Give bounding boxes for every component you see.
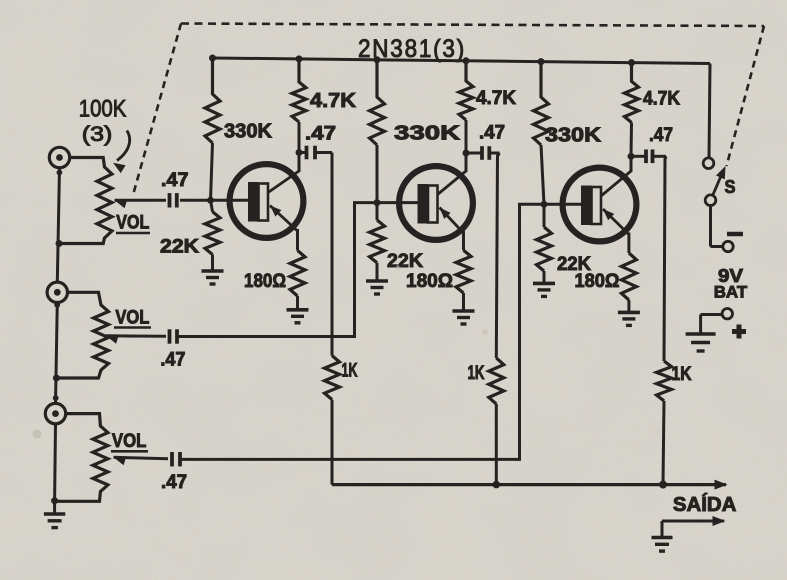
svg-text:100K: 100K bbox=[79, 96, 127, 123]
svg-text:SAÍDA: SAÍDA bbox=[673, 493, 737, 516]
svg-text:.47: .47 bbox=[161, 472, 187, 493]
svg-text:22K: 22K bbox=[387, 251, 423, 272]
svg-text:22K: 22K bbox=[160, 237, 199, 258]
svg-text:.47: .47 bbox=[305, 124, 336, 145]
svg-text:330K: 330K bbox=[394, 123, 461, 145]
svg-text:.47: .47 bbox=[479, 123, 505, 144]
svg-text:BAT: BAT bbox=[714, 283, 748, 302]
svg-text:S: S bbox=[725, 177, 736, 197]
svg-text:180Ω: 180Ω bbox=[406, 271, 453, 292]
svg-text:1K: 1K bbox=[342, 361, 358, 382]
svg-text:330K: 330K bbox=[224, 121, 273, 143]
svg-text:180Ω: 180Ω bbox=[575, 271, 620, 292]
svg-text:VOL: VOL bbox=[112, 430, 147, 452]
svg-text:4.7K: 4.7K bbox=[310, 90, 357, 112]
svg-text:(3): (3) bbox=[82, 123, 113, 146]
svg-text:.47: .47 bbox=[649, 125, 673, 146]
svg-text:4.7K: 4.7K bbox=[643, 89, 680, 110]
svg-text:180Ω: 180Ω bbox=[244, 271, 286, 292]
svg-text:330K: 330K bbox=[545, 125, 602, 147]
svg-text:VOL: VOL bbox=[115, 306, 149, 328]
svg-text:1K: 1K bbox=[468, 363, 485, 384]
svg-text:VOL: VOL bbox=[116, 211, 149, 233]
svg-text:.47: .47 bbox=[160, 349, 185, 370]
svg-text:.47: .47 bbox=[161, 170, 189, 191]
svg-text:4.7K: 4.7K bbox=[476, 88, 516, 109]
svg-text:1K: 1K bbox=[672, 364, 692, 385]
